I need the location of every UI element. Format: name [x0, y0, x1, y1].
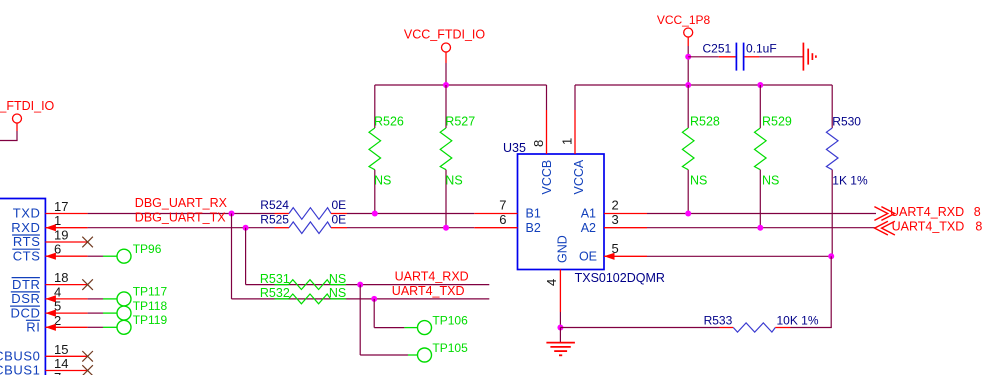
branch wire DBG_UART_RX down to R532 row	[232, 214, 490, 299]
capacitor C251 0.1uF	[703, 41, 777, 70]
junction on R531 row at TP105 branch	[357, 282, 363, 288]
wire ground row to R533	[560, 327, 719, 329]
wire to test point TP117	[88, 298, 117, 300]
svg-text:A1: A1	[581, 207, 596, 221]
svg-text:0E: 0E	[332, 212, 347, 226]
wire VCC_1P8 stem	[687, 46, 689, 85]
svg-text:CBUS0: CBUS0	[0, 349, 41, 364]
svg-text:DBG_UART_RX: DBG_UART_RX	[135, 196, 228, 210]
svg-text:R525: R525	[260, 212, 289, 226]
svg-text:RTS: RTS	[13, 234, 41, 249]
svg-text:19: 19	[54, 228, 68, 243]
junction A2 / R529	[757, 225, 763, 231]
power symbol VCC_FTDI_IO	[404, 27, 486, 63]
svg-text:R533: R533	[704, 313, 733, 327]
svg-text:RI: RI	[26, 320, 40, 335]
no-connect X on DTR pin	[82, 279, 93, 290]
svg-text:R527: R527	[445, 114, 475, 128]
svg-text:DSR: DSR	[11, 291, 40, 306]
FTDI pin stub RI	[45, 326, 87, 328]
wire GND pin to R533 row	[559, 312, 561, 328]
svg-text:VCC_FTDI_IO: VCC_FTDI_IO	[404, 27, 486, 41]
wire UART4_RXD (A1 row)	[647, 213, 876, 215]
svg-text:NS: NS	[762, 174, 779, 188]
svg-text:B1: B1	[526, 207, 541, 221]
test point TP118	[117, 299, 167, 320]
svg-text:GND: GND	[556, 235, 570, 263]
U35 pin 5 (OE) stub with arrowhead	[604, 253, 647, 260]
resistor R531 NS	[260, 272, 346, 290]
svg-text:NS: NS	[374, 174, 391, 188]
svg-text:TP96: TP96	[133, 242, 162, 256]
power symbol VCC_1P8	[657, 13, 711, 46]
resistor R524 0E	[260, 198, 347, 219]
svg-text:TXD: TXD	[13, 206, 41, 221]
junction A1 / R528	[685, 211, 691, 217]
test point TP96	[117, 242, 162, 263]
wire VCCB to rail	[546, 85, 548, 110]
resistor R533 10K 1%	[704, 313, 819, 332]
svg-text:U35: U35	[503, 141, 526, 155]
svg-text:UART4_TXD: UART4_TXD	[392, 284, 465, 298]
input arrowhead on pin RXD	[45, 224, 56, 231]
svg-text:CBUS1: CBUS1	[0, 363, 41, 375]
junction VCC_FTDI_IO rail / R527	[443, 82, 449, 88]
svg-text:TP117: TP117	[133, 285, 168, 299]
svg-text:TP105: TP105	[432, 341, 468, 355]
FTDI pin stub DTR	[45, 284, 87, 286]
junction rail / R529	[757, 82, 763, 88]
svg-text:VCCA: VCCA	[572, 159, 586, 194]
resistor R529 NS	[755, 85, 792, 228]
junction GND / R533 row / ground	[557, 325, 563, 331]
off-page connector UART4_RXD (output chevron)	[874, 207, 894, 221]
wire VCC_1P8 rail	[575, 84, 832, 86]
resistor R528 NS	[682, 85, 720, 214]
U35 pin 7 (B1) stub	[474, 213, 517, 215]
svg-text:TP118: TP118	[133, 299, 168, 313]
junction VCC_1P8 / C251 branch	[685, 54, 691, 60]
svg-text:TXS0102DQMR: TXS0102DQMR	[575, 271, 665, 285]
net label UART4_RXD 8	[890, 205, 981, 219]
resistor R527 NS	[440, 85, 475, 228]
wire DBG_UART_TX (RXD row)	[88, 227, 275, 229]
svg-text:UART4_RXD: UART4_RXD	[395, 270, 469, 284]
test point TP119	[117, 313, 167, 334]
test point TP106	[418, 314, 469, 335]
U35 pin 1 (VCCA) stub	[574, 110, 576, 154]
svg-text:A2: A2	[581, 221, 596, 235]
svg-text:DTR: DTR	[12, 277, 41, 292]
svg-text:18: 18	[54, 270, 68, 285]
svg-text:8: 8	[974, 205, 981, 219]
FTDI pin stub DCD	[45, 312, 87, 314]
svg-text:7: 7	[499, 198, 506, 213]
wire OE junction down to R533	[830, 256, 832, 327]
svg-text:R526: R526	[374, 114, 404, 128]
svg-text:CTS: CTS	[13, 248, 41, 263]
wire VCCA to VCC_1P8 rail	[574, 85, 576, 110]
wire to test point TP118	[88, 312, 117, 314]
svg-text:NS: NS	[329, 286, 346, 300]
svg-text:1: 1	[560, 138, 575, 145]
svg-text:R528: R528	[690, 114, 720, 128]
svg-text:TP119: TP119	[133, 313, 168, 327]
junction R527 / DBG_UART_TX	[443, 225, 449, 231]
wire R533 to OE vertical	[791, 327, 832, 329]
FTDI pin stub RXD	[45, 227, 87, 229]
svg-text:5: 5	[612, 241, 619, 256]
input arrowhead on pin RI	[45, 324, 56, 331]
ground symbol (below U35 GND pin)	[546, 328, 575, 356]
wire UART4_TXD (A2 row)	[647, 227, 876, 229]
svg-text:NS: NS	[445, 174, 462, 188]
FTDI IC body (partial, clipped at left edge)	[0, 199, 45, 375]
test point TP117	[117, 285, 167, 306]
junction OE / R530 / R533 branch	[828, 253, 834, 259]
svg-text:10K 1%: 10K 1%	[777, 313, 819, 327]
svg-text:R530: R530	[832, 114, 861, 128]
wire R525 to U35 B2	[347, 227, 474, 229]
resistor R525 0E	[260, 212, 347, 233]
op-amp U35 body (TXS0102DQMR level shifter)	[518, 154, 605, 270]
FTDI pin stub RTS	[45, 241, 87, 243]
wire from left VCC_FTDI_IO symbol	[0, 131, 18, 141]
svg-text:R524: R524	[260, 198, 289, 212]
FTDI pin stub TXD	[45, 213, 87, 215]
svg-text:17: 17	[54, 199, 68, 214]
svg-text:3: 3	[612, 212, 619, 227]
power symbol VCC_FTDI_IO (partial, left edge)	[0, 99, 55, 131]
wire R524 to U35 B1	[347, 213, 474, 215]
svg-text:OE: OE	[579, 250, 597, 264]
wire OE net to R530 junction	[647, 255, 831, 257]
resistor R530 1K 1%	[826, 85, 868, 256]
svg-text:4: 4	[544, 279, 559, 286]
input arrowhead on pin DCD	[45, 310, 56, 317]
svg-text:2: 2	[612, 198, 619, 213]
wire to TP105	[360, 285, 417, 355]
svg-text:NS: NS	[690, 174, 707, 188]
svg-text:R532: R532	[260, 286, 290, 300]
svg-text:0E: 0E	[332, 198, 347, 212]
svg-text:C251: C251	[703, 41, 732, 55]
svg-text:UART4_RXD: UART4_RXD	[890, 205, 964, 219]
wire C251 to ground	[759, 56, 803, 58]
test point TP105	[418, 341, 469, 362]
svg-text:R531: R531	[260, 272, 290, 286]
resistor R526 NS	[369, 85, 404, 214]
ground symbol (right-facing, top right)	[803, 43, 816, 71]
svg-text:7: 7	[54, 370, 61, 375]
svg-text:14: 14	[54, 356, 68, 371]
input arrowhead on pin DSR	[45, 295, 56, 302]
svg-text:UART4_TXD: UART4_TXD	[892, 220, 965, 234]
U35 pin 8 (VCCB) stub	[546, 110, 548, 154]
wire to capacitor C251	[688, 56, 719, 58]
off-page connector UART4_TXD (input chevron)	[875, 221, 895, 235]
net label UART4_TXD 8	[892, 220, 983, 234]
FTDI pin stub CTS	[45, 255, 87, 257]
svg-text:8: 8	[531, 140, 546, 147]
junction R526 / DBG_UART_RX	[372, 211, 378, 217]
FTDI pin stub CBUS0	[45, 355, 87, 357]
svg-text:TP106: TP106	[432, 314, 468, 328]
junction rail / R528	[685, 82, 691, 88]
svg-text:0.1uF: 0.1uF	[746, 41, 777, 55]
input arrowhead on pin CTS	[45, 253, 56, 260]
svg-text:R529: R529	[762, 114, 792, 128]
wire VCC_FTDI_IO rail	[375, 84, 547, 86]
wire DBG_UART_RX (TXD row)	[88, 213, 275, 215]
svg-text:DBG_UART_TX: DBG_UART_TX	[135, 211, 226, 225]
svg-text:B2: B2	[526, 221, 541, 235]
U35 pin 4 (GND) stub	[559, 270, 561, 313]
wire to test point TP96	[88, 255, 117, 257]
no-connect X on CBUS0 pin	[82, 351, 93, 362]
junction on DBG_UART_TX at branch to R531	[243, 225, 249, 231]
svg-text:6: 6	[499, 212, 506, 227]
wire VCC_FTDI_IO stem to rail	[445, 63, 447, 85]
junction on DBG_UART_RX at branch to R532	[229, 211, 235, 217]
svg-text:8: 8	[975, 220, 982, 234]
svg-text:RXD: RXD	[11, 220, 40, 235]
svg-text:DCD: DCD	[11, 305, 41, 320]
FTDI pin stub DSR	[45, 298, 87, 300]
svg-text:VCC_1P8: VCC_1P8	[657, 13, 711, 27]
U35 pin 3 (A2) stub	[604, 227, 647, 229]
U35 pin 2 (A1) stub	[604, 213, 647, 215]
FTDI pin stub CBUS1	[45, 370, 87, 372]
resistor R532 NS	[260, 286, 346, 304]
svg-text:NS: NS	[329, 272, 346, 286]
svg-text:15: 15	[54, 342, 68, 357]
svg-text:VCC_FTDI_IO: VCC_FTDI_IO	[0, 99, 55, 113]
svg-text:VCCB: VCCB	[540, 160, 554, 195]
no-connect X on RTS pin	[82, 237, 93, 248]
svg-text:1K 1%: 1K 1%	[832, 174, 868, 188]
branch wire DBG_UART_TX down to R531 row	[246, 228, 490, 285]
wire to TP106	[374, 299, 417, 328]
no-connect X on CBUS1 pin	[82, 365, 93, 375]
U35 pin 6 (B2) stub	[474, 227, 517, 229]
wire to test point TP119	[88, 326, 117, 328]
junction on R532 row at TP106 branch	[371, 296, 377, 302]
